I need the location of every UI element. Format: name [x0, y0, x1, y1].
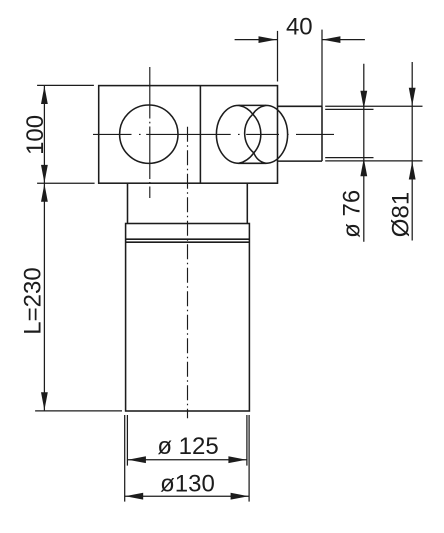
outlet stub right edge [321, 106, 323, 161]
dim o81 top arrowhead [409, 88, 416, 106]
neck left wall [127, 183, 129, 223]
dim 40 right dimension line [322, 39, 365, 41]
dim 40 left dimension line [235, 39, 277, 41]
svg-text:40: 40 [286, 14, 313, 41]
dim o76 dimension line [363, 64, 365, 242]
clamp ring lower edge [126, 238, 250, 240]
dim L=230 dimension line [43, 183, 45, 411]
dim o81 dimension line [411, 62, 413, 241]
dim o81 top extension line [325, 105, 422, 107]
dim 100 top extension line [37, 84, 94, 86]
svg-text:L=230: L=230 [20, 267, 47, 334]
horizontal centerline [93, 133, 334, 135]
clamp ring seam wire [126, 241, 250, 243]
head block outline [99, 86, 278, 184]
dim 100 bottom arrowhead [41, 165, 48, 183]
dim o130 left arrowhead [125, 493, 143, 500]
outlet stub top edge [278, 105, 323, 107]
dim o125 left arrowhead [128, 456, 146, 463]
svg-text:100: 100 [22, 115, 49, 155]
right port top tangent wire [239, 104, 266, 106]
dim L=230 bottom extension line [35, 410, 122, 412]
dim L=230 top arrowhead [41, 184, 48, 202]
dim o130 left extension line [124, 415, 126, 502]
dim o76 bottom arrowhead [360, 158, 367, 176]
dim o81 bottom arrowhead [409, 162, 416, 180]
dim o125 right arrowhead [228, 456, 246, 463]
dim 40 left arrowhead [259, 36, 277, 43]
dim L=230 bottom arrowhead [41, 392, 48, 410]
main vertical centerline [187, 127, 189, 418]
dim o125 dimension line [127, 459, 246, 461]
dim 100 bottom extension line [37, 182, 95, 184]
outlet stub bottom edge [278, 160, 323, 162]
dim o130 dimension line [125, 495, 249, 497]
dim o76 bottom extension line [325, 157, 373, 159]
dim 40 right extension line [321, 30, 323, 107]
dim 100 dimension line [43, 86, 45, 184]
right port front rim [216, 105, 260, 163]
dim o125 left extension line [126, 415, 128, 466]
svg-text:Ø81: Ø81 [387, 192, 414, 237]
dim o76 top extension line [325, 108, 373, 110]
dim o76 top arrowhead [360, 91, 367, 109]
left port circle [120, 105, 178, 163]
left port vertical centerline [149, 67, 151, 198]
bowl outline [126, 224, 250, 412]
dim o125 right extension line [246, 415, 248, 466]
dim 40 left extension line [277, 31, 279, 82]
dim 40 right arrowhead [322, 36, 340, 43]
dim o130 right arrowhead [231, 493, 249, 500]
head block divider wire [199, 86, 201, 184]
svg-text:ø130: ø130 [160, 471, 215, 498]
dim o81 bottom extension line [325, 160, 422, 162]
dim o130 right extension line [248, 415, 250, 502]
right port outer rim [245, 105, 288, 163]
right port bottom tangent wire [239, 162, 266, 164]
svg-text:ø 76: ø 76 [338, 190, 365, 238]
dim 100 top arrowhead [41, 86, 48, 104]
svg-text:ø 125: ø 125 [157, 433, 218, 460]
neck right wall [246, 183, 248, 223]
